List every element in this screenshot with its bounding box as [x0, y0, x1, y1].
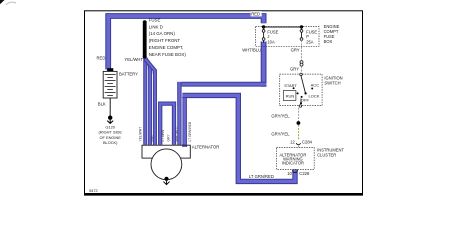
wire loop jumper at alternator terminals — [160, 104, 174, 145]
svg-text:LT GRN/RED: LT GRN/RED — [188, 121, 192, 141]
svg-text:BOX: BOX — [324, 39, 333, 44]
svg-text:LOCK: LOCK — [309, 93, 320, 98]
svg-text:FUSE: FUSE — [324, 34, 335, 39]
svg-text:FUSE: FUSE — [306, 29, 317, 34]
svg-text:BLK: BLK — [150, 134, 154, 141]
svg-text:WHT/BLU: WHT/BLU — [242, 47, 261, 52]
svg-text:CLUSTER: CLUSTER — [317, 153, 336, 158]
svg-text:(RIGHT SIDE: (RIGHT SIDE — [98, 130, 122, 135]
svg-text:YEL/WHT: YEL/WHT — [139, 127, 143, 142]
fusible link D (black bar) — [143, 20, 147, 24]
svg-text:ALTERNATOR: ALTERNATOR — [192, 144, 219, 149]
wire GRY/YEL splice to cluster — [298, 125, 300, 140]
svg-text:25A: 25A — [306, 40, 314, 45]
wire BLK battery to ground — [109, 98, 111, 116]
seams between bundle wires — [147, 70, 149, 144]
svg-text:GRY/YEL: GRY/YEL — [271, 132, 290, 137]
alternator box — [142, 145, 190, 158]
svg-text:START: START — [284, 83, 297, 88]
svg-text:FUSE: FUSE — [267, 29, 278, 34]
svg-text:BLOCK): BLOCK) — [103, 140, 118, 145]
ignition switch (dashed box) — [280, 74, 322, 106]
battery — [107, 68, 113, 71]
svg-text:LINK D: LINK D — [149, 24, 163, 29]
wire GRY to ignition switch — [301, 66, 303, 73]
RUN position box — [283, 91, 296, 101]
svg-text:SWITCH: SWITCH — [324, 80, 340, 85]
svg-text:GRY: GRY — [291, 48, 300, 53]
svg-text:LT GRN/RED: LT GRN/RED — [249, 174, 274, 179]
svg-text:ENGINE: ENGINE — [324, 24, 340, 29]
svg-text:ENGINE COMPT,: ENGINE COMPT, — [149, 45, 184, 50]
scan artifact top-left corner — [0, 0, 5, 4]
svg-text:C228: C228 — [299, 171, 310, 176]
wire GRY fuse P down — [301, 40, 303, 60]
svg-text:12: 12 — [290, 139, 295, 144]
engine compt fuse box (dashed) — [256, 27, 320, 47]
svg-text:G120: G120 — [105, 124, 115, 129]
svg-text:LT GRN: LT GRN — [161, 129, 165, 141]
svg-text:BLK: BLK — [98, 102, 106, 107]
wire RED battery-to-fusebox top run — [108, 16, 263, 70]
wire LT GRN/RED alternator L terminal to instrument cluster — [182, 97, 187, 147]
svg-text:INDICATOR: INDICATOR — [282, 161, 304, 166]
wire GRY/YEL switch to splice — [298, 108, 300, 122]
svg-text:ACC: ACC — [311, 82, 320, 87]
svg-text:RUN: RUN — [286, 93, 295, 98]
svg-text:BATTERY: BATTERY — [119, 71, 138, 76]
fuse P 25A — [301, 27, 303, 30]
alternator rotor circle — [151, 149, 182, 180]
switch output terminal — [300, 99, 302, 104]
svg-text:(RIGHT FRONT: (RIGHT FRONT — [149, 38, 181, 43]
svg-text:(14 GA ORN): (14 GA ORN) — [149, 31, 176, 36]
svg-text:P: P — [306, 34, 309, 39]
splice — [297, 121, 301, 125]
svg-text:YEL/WHT: YEL/WHT — [124, 57, 143, 62]
svg-text:FUSE: FUSE — [149, 17, 161, 22]
svg-text:10: 10 — [287, 171, 292, 176]
svg-text:OF ENGINE: OF ENGINE — [99, 135, 121, 140]
fuse J 10A — [263, 27, 265, 30]
svg-text:NEAR FUSE BOX): NEAR FUSE BOX) — [149, 52, 187, 57]
border frame — [85, 11, 363, 194]
svg-text:10A: 10A — [267, 40, 275, 45]
label LT GRN/RED — [248, 173, 275, 178]
label RED (fusebox end) — [251, 11, 262, 16]
wire WHT/BLU fuse J to alternator S terminal — [261, 42, 267, 87]
svg-text:C284: C284 — [302, 139, 313, 144]
svg-text:GRY: GRY — [167, 134, 171, 142]
svg-text:OFF: OFF — [301, 98, 310, 103]
ground G120 — [108, 116, 112, 120]
svg-text:WHT/BLU: WHT/BLU — [175, 126, 179, 141]
svg-text:RED: RED — [251, 12, 260, 17]
svg-text:5472: 5472 — [89, 189, 97, 193]
switch arm — [301, 76, 305, 93]
wire YEL/WHT bundle from fuse link to alternator B+ — [143, 58, 147, 145]
svg-text:GRY/YEL: GRY/YEL — [271, 113, 290, 118]
svg-text:INSTRUMENT: INSTRUMENT — [317, 148, 344, 153]
alternator case ground — [164, 177, 168, 181]
switch input terminal — [300, 73, 303, 76]
svg-text:COMPT: COMPT — [324, 29, 339, 34]
svg-text:IGNITION: IGNITION — [324, 75, 342, 80]
svg-text:RED: RED — [97, 55, 106, 60]
node: fuse bus junction — [262, 25, 265, 28]
instrument cluster (dashed box) — [276, 148, 314, 170]
inline connector — [300, 61, 303, 64]
svg-text:GRY: GRY — [290, 66, 299, 71]
svg-text:J: J — [267, 34, 269, 39]
